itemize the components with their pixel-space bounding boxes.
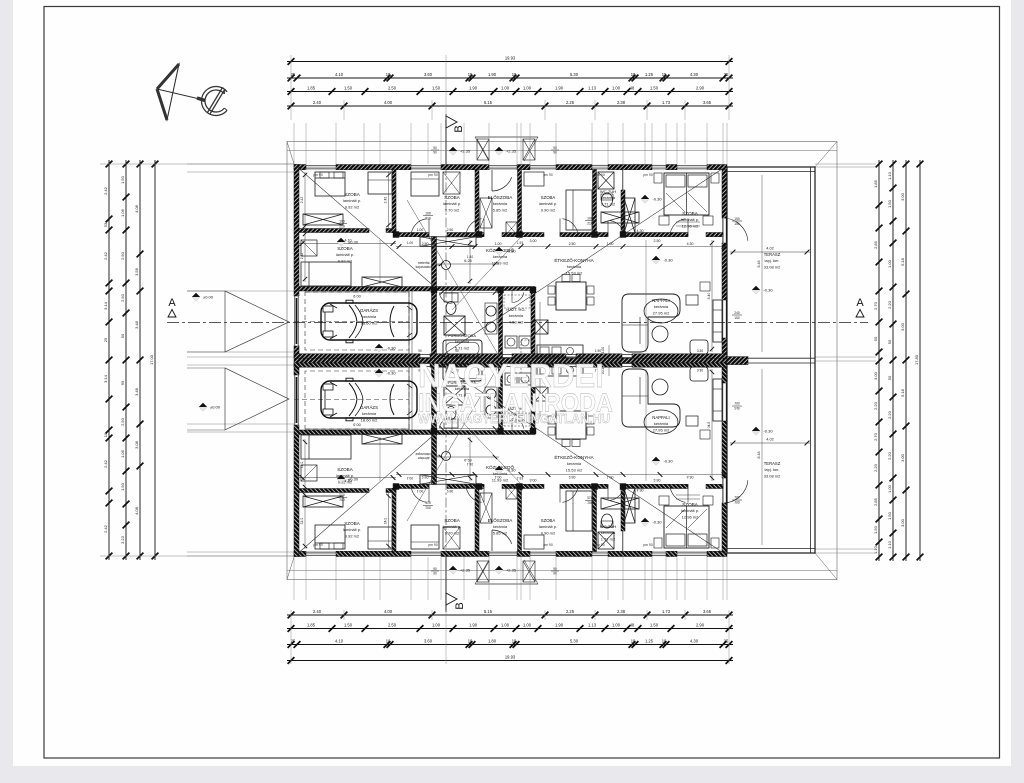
svg-text:2.42: 2.42 [103,186,108,195]
svg-text:240: 240 [734,311,740,315]
svg-text:laminált p.: laminált p. [681,217,699,222]
svg-text:9.92 m2: 9.92 m2 [345,204,360,209]
svg-text:laminált p.: laminált p. [343,527,361,532]
svg-text:15.53 m2: 15.53 m2 [566,270,583,275]
svg-text:15: 15 [662,72,667,77]
level markers inside [337,238,345,246]
bath strip walls [499,287,503,359]
svg-text:1.06: 1.06 [120,449,125,458]
svg-text:1.50: 1.50 [887,511,892,520]
svg-text:kerámia: kerámia [654,421,669,426]
svg-text:90: 90 [433,151,437,155]
svg-text:48: 48 [630,85,635,90]
room 9.90 furniture [566,190,592,230]
svg-text:kerámia: kerámia [455,339,470,344]
terrace dims [730,251,810,253]
svg-text:2.50: 2.50 [654,239,661,243]
svg-text:1.00: 1.00 [887,484,892,493]
svg-text:1.13: 1.13 [588,622,597,627]
svg-text:1.00: 1.00 [407,241,413,245]
svg-text:2.90: 2.90 [696,622,705,627]
svg-text:2.50: 2.50 [388,85,397,90]
mirrored lower dwelling unit [294,363,748,557]
svg-text:2.25: 2.25 [566,609,575,614]
svg-text:90: 90 [433,567,437,571]
svg-text:ÉTKEZŐ-KONYHA: ÉTKEZŐ-KONYHA [554,454,594,460]
bath fixtures [444,293,458,302]
svg-text:5.30: 5.30 [570,72,579,77]
svg-text:-0.30: -0.30 [663,459,673,464]
armchair [690,340,708,354]
svg-text:SZOBA: SZOBA [337,246,354,251]
svg-text:3.00: 3.00 [900,322,905,331]
svg-text:1.50: 1.50 [344,622,353,627]
svg-text:WC-ZUH: WC-ZUH [600,189,616,194]
svg-text:2.50: 2.50 [569,242,576,246]
svg-text:25: 25 [291,638,296,643]
svg-text:A: A [856,297,864,309]
svg-text:±0.00: ±0.00 [203,295,214,300]
svg-text:4.08: 4.08 [134,506,139,515]
svg-text:18.60 m2: 18.60 m2 [361,417,378,422]
svg-text:2.85: 2.85 [873,497,878,506]
svg-text:1.80: 1.80 [488,638,497,643]
svg-text:2.40: 2.40 [313,609,322,614]
section line B vertical dash-dot [445,130,447,584]
svg-text:50: 50 [120,333,125,338]
svg-text:ELŐSZOBA: ELŐSZOBA [488,194,514,200]
svg-text:kerámia: kerámia [362,411,377,416]
svg-text:4.30: 4.30 [687,242,694,246]
coffee table [652,326,668,342]
svg-text:3.00: 3.00 [530,239,537,243]
svg-text:3.30: 3.30 [697,349,703,353]
svg-text:5.85 m2: 5.85 m2 [493,530,508,535]
svg-text:4.30: 4.30 [690,72,699,77]
svg-text:12.96 m2: 12.96 m2 [682,514,699,519]
svg-text:pm 90: pm 90 [643,543,653,547]
svg-text:12.96 m2: 12.96 m2 [682,223,699,228]
svg-text:2.20: 2.20 [873,463,878,472]
svg-text:SZOBA: SZOBA [682,502,699,507]
svg-text:pm 90: pm 90 [313,173,323,177]
svg-text:5.15: 5.15 [484,100,493,105]
svg-text:pm 90: pm 90 [595,543,605,547]
svg-text:3.14: 3.14 [103,374,108,383]
svg-text:25: 25 [724,638,729,643]
svg-text:pm 90: pm 90 [595,173,605,177]
svg-text:2.50: 2.50 [422,242,429,246]
svg-text:-0.30: -0.30 [506,468,516,473]
svg-text:6.00: 6.00 [353,295,360,299]
svg-text:NAPPALI: NAPPALI [652,298,669,303]
svg-text:1.50: 1.50 [887,199,892,208]
svg-text:2.20: 2.20 [887,300,892,309]
svg-text:4.00: 4.00 [384,100,393,105]
svg-text:kerámia: kerámia [362,314,377,319]
svg-text:lapj. ker.: lapj. ker. [765,467,780,472]
svg-text:2.50: 2.50 [120,293,125,302]
svg-text:1.50: 1.50 [432,85,441,90]
svg-text:lapj. ker.: lapj. ker. [765,258,780,263]
svg-text:kerámia: kerámia [601,530,616,535]
svg-text:9.70 m2: 9.70 m2 [445,207,460,212]
svg-text:90: 90 [418,349,422,353]
svg-text:18.60 m2: 18.60 m2 [361,320,378,325]
svg-text:10: 10 [388,228,392,232]
wc-zuh fixtures [598,172,614,189]
svg-text:8.48: 8.48 [757,452,761,459]
svg-text:1.71 m2: 1.71 m2 [601,201,616,206]
roof eaves outline [287,142,837,580]
svg-text:SZOBA: SZOBA [344,521,361,526]
svg-text:2.42: 2.42 [103,459,108,468]
svg-text:kapcsolatok: kapcsolatok [416,265,433,269]
svg-text:3.00: 3.00 [900,518,905,527]
svg-text:1.90: 1.90 [488,72,497,77]
svg-text:1.90: 1.90 [469,85,478,90]
svg-text:53: 53 [103,222,108,227]
svg-text:3.23: 3.23 [120,535,125,544]
svg-text:2.70: 2.70 [873,432,878,441]
svg-text:90: 90 [553,146,557,150]
svg-text:2.85: 2.85 [873,240,878,249]
svg-text:B: B [454,602,466,609]
svg-text:2.90: 2.90 [696,85,705,90]
svg-text:SZOBA: SZOBA [541,518,556,523]
svg-text:pm 90: pm 90 [313,543,323,547]
svg-text:3.60: 3.60 [424,638,433,643]
svg-text:1.73: 1.73 [662,609,671,614]
svg-text:9.92 m2: 9.92 m2 [338,258,353,263]
extra interior detail lines [304,172,306,282]
svg-text:10: 10 [631,72,636,77]
svg-text:1.00: 1.00 [523,622,532,627]
svg-text:2.70: 2.70 [873,301,878,310]
svg-text:±0.30: ±0.30 [348,477,359,482]
svg-text:+2.35: +2.35 [506,568,517,573]
svg-text:11.99 m2: 11.99 m2 [492,477,509,482]
tv bench [713,300,722,342]
svg-text:SZOBA: SZOBA [337,467,354,472]
svg-text:SZOBA: SZOBA [541,195,556,200]
svg-text:1.50: 1.50 [120,482,125,491]
svg-text:1.10: 1.10 [887,171,892,180]
svg-text:-0.30: -0.30 [652,197,662,202]
svg-text:1.90: 1.90 [555,622,564,627]
svg-text:11.99 m2: 11.99 m2 [492,260,509,265]
svg-text:+2.35: +2.35 [506,149,517,154]
svg-text:2.50: 2.50 [447,228,454,232]
outer top wall with window openings [294,165,306,170]
terrace door swing [724,218,748,241]
svg-text:1.00: 1.00 [495,242,502,246]
svg-text:90: 90 [433,572,437,576]
svg-text:laminált p.: laminált p. [443,201,461,206]
svg-text:1.90: 1.90 [469,622,478,627]
kitchen counter [537,345,583,357]
svg-text:5.85 m2: 5.85 m2 [493,207,508,212]
svg-text:25: 25 [724,72,729,77]
svg-text:GARÁZS: GARÁZS [360,405,378,410]
svg-text:1.00: 1.00 [887,259,892,268]
svg-text:99: 99 [120,380,125,385]
svg-text:1.85: 1.85 [307,622,316,627]
svg-text:1.73: 1.73 [662,100,671,105]
svg-text:2.42: 2.42 [103,524,108,533]
garage top wall [299,287,436,292]
svg-text:-0.30: -0.30 [663,258,673,263]
left outer wall with garage door [294,165,299,297]
north arrow symbol [157,64,227,120]
svg-text:±0.30: ±0.30 [348,240,359,245]
svg-text:+2.35: +2.35 [460,568,471,573]
svg-text:1.06: 1.06 [120,208,125,217]
svg-text:-0.30: -0.30 [763,288,773,293]
svg-text:1.25: 1.25 [645,72,654,77]
svg-text:HÁZT. HG.: HÁZT. HG. [506,307,525,312]
svg-text:2.40: 2.40 [313,100,322,105]
svg-text:WC-ZUH: WC-ZUH [600,524,616,529]
porch canopy top [475,136,538,138]
level markers outside [192,293,200,301]
svg-text:1.10: 1.10 [873,545,878,554]
dining table [556,282,586,310]
svg-text:1.50: 1.50 [650,622,659,627]
svg-text:4.02: 4.02 [766,247,773,251]
svg-text:150: 150 [734,217,740,221]
svg-text:kerámia: kerámia [601,195,616,200]
svg-text:laminált p.: laminált p. [343,198,361,203]
svg-text:90: 90 [553,567,557,571]
svg-text:pm 90: pm 90 [428,543,438,547]
svg-text:5.71 m2: 5.71 m2 [455,345,470,350]
svg-text:pm 90: pm 90 [543,543,553,547]
svg-text:3.58: 3.58 [134,267,139,276]
svg-text:33.08 m2: 33.08 m2 [764,264,781,269]
svg-text:15: 15 [468,72,473,77]
svg-text:9.90 m2: 9.90 m2 [541,530,556,535]
svg-text:1.00: 1.00 [501,622,510,627]
wardrobe big bedroom [624,198,635,233]
svg-text:1.13: 1.13 [588,85,597,90]
svg-text:1.93: 1.93 [517,241,523,245]
svg-text:ÉTKEZŐ-KONYHA: ÉTKEZŐ-KONYHA [554,257,594,263]
svg-text:±0.00: ±0.00 [210,405,221,410]
big bedroom bed [664,173,709,215]
svg-text:GARÁZS: GARÁZS [360,308,378,313]
right dimension chains [878,160,880,561]
svg-text:3.00: 3.00 [873,371,878,380]
garage right wall [432,237,437,359]
svg-text:9.70 m2: 9.70 m2 [445,530,460,535]
svg-text:kerámia: kerámia [493,254,508,259]
svg-text:SZOBA: SZOBA [344,192,361,197]
svg-text:TERASZ: TERASZ [764,461,781,466]
svg-text:SZOBA: SZOBA [444,518,461,523]
svg-text:5.40: 5.40 [707,293,711,300]
svg-text:2.42: 2.42 [300,253,304,260]
hall dim details [437,263,499,265]
car in garage [321,300,417,343]
svg-text:1.50: 1.50 [344,85,353,90]
svg-text:SZOBA: SZOBA [682,211,699,216]
svg-text:10: 10 [386,72,391,77]
svg-text:100: 100 [587,217,593,221]
svg-text:3.00: 3.00 [900,192,905,201]
extension lines [293,123,295,164]
svg-text:90: 90 [433,146,437,150]
svg-text:TERASZ: TERASZ [764,252,781,257]
svg-text:15.53 m2: 15.53 m2 [566,467,583,472]
svg-text:25: 25 [103,337,108,342]
svg-text:3.65: 3.65 [703,609,712,614]
svg-text:NAPPALI: NAPPALI [652,415,669,420]
svg-text:17.80: 17.80 [914,354,919,365]
page gray margins [0,0,13,778]
interior walls bedroom strip [299,229,369,233]
svg-text:1.50: 1.50 [873,525,878,534]
svg-text:10: 10 [512,72,517,77]
svg-text:WWW.NAGYERDEIINGATLAN.HU: WWW.NAGYERDEIINGATLAN.HU [418,411,610,426]
washbasin circles [486,306,496,316]
svg-text:2.42: 2.42 [300,197,304,204]
svg-text:27.95 m2: 27.95 m2 [653,427,670,432]
svg-text:150: 150 [734,316,740,320]
svg-text:-0.30: -0.30 [763,429,773,434]
porch canopy bottom [475,583,538,585]
bathtub [443,340,482,357]
svg-text:2.50: 2.50 [120,251,125,260]
svg-text:100: 100 [339,220,345,224]
svg-text:4.10: 4.10 [335,72,344,77]
svg-text:2.50: 2.50 [388,622,397,627]
svg-text:2.20: 2.20 [887,410,892,419]
svg-text:-0.30: -0.30 [652,520,662,525]
top dimension chains [287,61,733,63]
party wall (unit bottom) [294,354,420,358]
svg-text:100: 100 [425,212,431,216]
svg-text:50: 50 [887,375,892,380]
svg-text:laminált p.: laminált p. [539,201,557,206]
svg-text:10: 10 [386,638,391,643]
section line A horizontal dash-dot [167,322,868,324]
bedroom strip bottom wall [396,233,429,237]
svg-text:kerámia: kerámia [654,304,669,309]
svg-text:A: A [168,297,176,309]
svg-text:kerámia: kerámia [567,461,582,466]
svg-text:10: 10 [631,638,636,643]
svg-text:90: 90 [553,151,557,155]
garage door panel [296,298,298,344]
svg-text:ELŐSZOBA: ELŐSZOBA [488,517,514,523]
svg-text:+2.35: +2.35 [460,149,471,154]
svg-text:9.90 m2: 9.90 m2 [541,207,556,212]
svg-text:laminált p.: laminált p. [336,252,354,257]
svg-text:kerámia: kerámia [493,201,508,206]
svg-text:90: 90 [553,572,557,576]
terrace outline right [727,167,815,553]
misc short dims near party wall [608,345,610,355]
svg-text:3.00: 3.00 [900,453,905,462]
svg-text:8.48: 8.48 [757,261,761,268]
svg-text:48: 48 [630,622,635,627]
bedroom2 furniture [301,262,351,286]
svg-text:1.90: 1.90 [555,85,564,90]
svg-text:210: 210 [339,225,345,229]
svg-text:4.10: 4.10 [335,638,344,643]
svg-text:laminált p.: laminált p. [681,508,699,513]
svg-text:2.38: 2.38 [617,100,626,105]
svg-text:FÜRDŐSZOBA: FÜRDŐSZOBA [448,333,476,338]
svg-text:4.10: 4.10 [347,228,354,232]
svg-text:19.93: 19.93 [505,654,516,659]
svg-text:10: 10 [468,638,473,643]
right outer wall with terrace openings [722,170,727,219]
svg-text:19.93: 19.93 [505,55,516,60]
svg-text:4.08: 4.08 [134,204,139,213]
svg-text:1.50: 1.50 [650,85,659,90]
left dimension chains [108,160,110,560]
svg-text:2.50: 2.50 [120,417,125,426]
svg-text:25: 25 [291,72,296,77]
svg-text:1.71 m2: 1.71 m2 [601,536,616,541]
utility appliances [505,336,517,348]
svg-text:1.00: 1.00 [607,242,614,246]
svg-text:4.00: 4.00 [384,609,393,614]
svg-text:1.00: 1.00 [612,622,621,627]
svg-text:kerámia: kerámia [493,524,508,529]
svg-text:4.02: 4.02 [766,438,773,442]
svg-text:2.20: 2.20 [873,401,878,410]
eaves corner diagonals [287,142,294,165]
svg-text:kerámia: kerámia [509,313,524,318]
svg-text:33.08 m2: 33.08 m2 [764,473,781,478]
svg-text:3.14: 3.14 [103,301,108,310]
svg-text:laminált p.: laminált p. [539,524,557,529]
garage dashed clearance [305,292,409,350]
svg-text:5.18: 5.18 [900,257,905,266]
svg-text:4.30: 4.30 [690,638,699,643]
interior dimension chains [299,243,396,245]
svg-text:4.53 m2: 4.53 m2 [509,319,524,324]
svg-text:1.85: 1.85 [307,85,316,90]
svg-text:-0.30: -0.30 [386,346,396,351]
svg-text:B: B [453,125,465,132]
svg-text:1.85: 1.85 [873,179,878,188]
svg-text:1.00: 1.00 [612,85,621,90]
svg-text:4.30: 4.30 [637,229,644,233]
svg-text:5.30: 5.30 [570,638,579,643]
svg-text:10: 10 [308,228,312,232]
roof diagonals [296,166,436,288]
svg-text:1.00: 1.00 [417,228,424,232]
entrance door [492,177,512,191]
driveway triangles left [225,291,289,352]
svg-text:2.25: 2.25 [566,100,575,105]
svg-text:1.40: 1.40 [467,255,473,259]
svg-text:-0.30: -0.30 [506,249,516,254]
svg-text:50: 50 [887,339,892,344]
svg-text:2.20: 2.20 [887,451,892,460]
svg-text:210: 210 [587,222,593,226]
svg-text:1.50: 1.50 [120,175,125,184]
svg-text:3.08: 3.08 [134,440,139,449]
svg-text:50: 50 [873,336,878,341]
party wall stub on terrace [727,357,748,365]
entrance hall cabinet [480,198,492,228]
vertical partition walls [392,170,396,233]
